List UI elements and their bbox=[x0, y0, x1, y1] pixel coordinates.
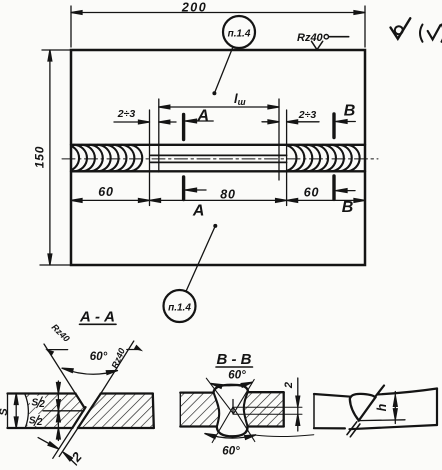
svg-text:S: S bbox=[0, 408, 10, 416]
extension lines 200 bbox=[70, 6, 72, 47]
dimension 150 bbox=[49, 50, 51, 265]
bottom cap bbox=[217, 426, 248, 436]
S dimension bbox=[15, 394, 17, 429]
svg-text:А - А: А - А bbox=[79, 309, 115, 326]
section mark B bottom bbox=[332, 176, 335, 199]
hatch right plate bbox=[244, 391, 284, 426]
dimension l_sh bbox=[159, 106, 279, 108]
svg-text:200: 200 bbox=[181, 1, 207, 15]
check mark with circle (top right) bbox=[391, 18, 411, 38]
svg-text:2: 2 bbox=[36, 417, 43, 428]
plate edges bbox=[180, 391, 283, 394]
root edge L3 bbox=[72, 407, 85, 428]
fraction bars S/2 bbox=[34, 397, 43, 427]
60 top arc bbox=[211, 382, 252, 385]
Rz40 surface mark on top edge bbox=[312, 41, 323, 49]
svg-text:A: A bbox=[192, 203, 205, 220]
section mark B top bbox=[332, 114, 335, 138]
bottom chain dimensions 60 80 60 bbox=[71, 199, 365, 201]
seam inner lines bbox=[151, 154, 287, 156]
hatch right plate bbox=[78, 394, 154, 429]
svg-text:60: 60 bbox=[304, 186, 320, 200]
strip outline bbox=[314, 389, 437, 397]
hatch left plate bbox=[180, 392, 219, 427]
plate bottom edge bbox=[8, 427, 154, 429]
(check) symbol bbox=[420, 25, 442, 42]
brace curve bbox=[25, 394, 29, 429]
leader circle p.1.4 bottom bbox=[164, 290, 196, 322]
svg-text:Rz40: Rz40 bbox=[297, 32, 324, 44]
dimension 2÷3 left bbox=[114, 121, 150, 123]
dimension 2÷3 right bbox=[262, 121, 279, 123]
extension lines 150 bbox=[42, 49, 71, 51]
tail curve bbox=[257, 435, 314, 437]
svg-text:80: 80 bbox=[220, 188, 236, 202]
dimension 200 bbox=[71, 12, 365, 14]
svg-text:60: 60 bbox=[98, 185, 114, 199]
right edge bbox=[153, 394, 154, 429]
svg-text:В: В bbox=[342, 199, 354, 216]
weld bead bbox=[350, 394, 376, 421]
vertical extension lines at weld ends bbox=[149, 110, 151, 206]
center gap line bbox=[232, 400, 234, 415]
top cap bbox=[214, 385, 249, 392]
svg-text:п.1.4: п.1.4 bbox=[228, 29, 251, 40]
svg-text:2÷3: 2÷3 bbox=[117, 108, 136, 120]
bevel line upper segment bbox=[375, 386, 384, 398]
svg-text:60°: 60° bbox=[228, 370, 246, 382]
60 bottom arc bbox=[205, 434, 256, 439]
section mark A bottom bbox=[182, 177, 185, 200]
weld bead right bbox=[283, 145, 359, 172]
svg-text:60°: 60° bbox=[90, 351, 108, 363]
S/2 dimension line bbox=[57, 381, 59, 441]
centerline bbox=[62, 158, 378, 160]
left fusion boundary bbox=[214, 392, 220, 427]
60 degree arc bbox=[62, 368, 118, 374]
2 dim line bbox=[297, 378, 299, 431]
2 dim extension lines bbox=[233, 406, 302, 408]
leader circle p.1.4 top bbox=[223, 16, 255, 48]
white mask under fractions bbox=[30, 396, 45, 408]
title underline bbox=[216, 366, 253, 368]
Rz40 right flag bbox=[127, 349, 140, 351]
svg-text:h: h bbox=[375, 403, 389, 411]
svg-text:В - В: В - В bbox=[217, 351, 252, 368]
plate top edge bbox=[8, 392, 153, 394]
bevel L1 bbox=[44, 344, 75, 394]
svg-text:2÷3: 2÷3 bbox=[298, 109, 317, 121]
seam double lines bbox=[347, 422, 360, 437]
left edge bbox=[7, 394, 9, 429]
section mark A top bbox=[182, 115, 185, 140]
right fusion boundary bbox=[244, 391, 248, 426]
svg-text:2: 2 bbox=[38, 399, 45, 410]
top V groove lines bbox=[206, 378, 233, 414]
midline bbox=[43, 410, 84, 412]
hatch left plate bbox=[25, 394, 85, 429]
svg-text:В: В bbox=[344, 103, 356, 120]
svg-text:150: 150 bbox=[33, 146, 47, 168]
svg-text:A: A bbox=[197, 108, 210, 125]
svg-text:п.1.4: п.1.4 bbox=[168, 303, 191, 314]
h dimension bbox=[359, 392, 406, 424]
svg-text:2: 2 bbox=[283, 382, 295, 389]
bevel L2 bbox=[101, 341, 134, 394]
title underline bbox=[80, 323, 117, 325]
root gap 2 arrows bbox=[38, 438, 56, 448]
Rz40 left flag bbox=[49, 349, 68, 351]
svg-text:60°: 60° bbox=[222, 446, 240, 458]
weld band edges bbox=[71, 144, 365, 146]
plate outline bbox=[71, 50, 365, 265]
weld bead left bbox=[66, 145, 142, 172]
bottom V groove lines bbox=[212, 407, 233, 443]
